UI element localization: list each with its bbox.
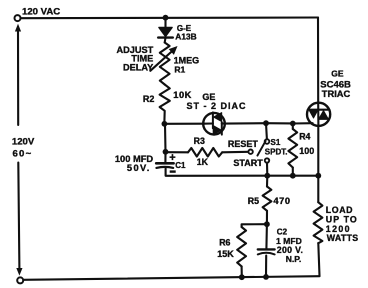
junction dot C1 top	[163, 149, 169, 155]
diac symbol top triangle	[214, 113, 222, 122]
svg-text:R5: R5	[248, 196, 259, 206]
svg-text:1K: 1K	[197, 157, 209, 167]
svg-text:GE: GE	[331, 68, 344, 78]
diode D1 A13B	[159, 27, 172, 36]
switch S1 START contact	[265, 158, 269, 162]
wire mid row right	[267, 175, 318, 177]
wire left lead lower	[18, 163, 19, 269]
svg-text:S1: S1	[271, 138, 281, 147]
triac Q1 circle	[307, 103, 330, 126]
svg-text:R2: R2	[143, 94, 155, 104]
resistor R4 100 zigzag	[288, 129, 297, 168]
capacitor C2 top plate	[258, 248, 275, 250]
wire triac gate	[293, 122, 313, 124]
wire C1 bottom L to row	[166, 169, 268, 176]
switch S1 pole contact	[265, 139, 270, 144]
wire diode anode lead	[164, 18, 166, 27]
svg-text:R6: R6	[219, 238, 230, 248]
capacitor C1 bottom plate	[156, 167, 173, 168]
wire right rail triac-to-load	[317, 126, 319, 202]
wire diode-to-R1	[164, 38, 167, 43]
triac Q1 right triangle	[319, 111, 327, 118]
wire left lead upper	[17, 28, 19, 125]
svg-text:SPDT.: SPDT.	[265, 148, 288, 157]
triac Q1 top bar	[309, 109, 327, 111]
svg-text:60~: 60~	[13, 148, 33, 159]
svg-text:R4: R4	[299, 131, 310, 141]
diac U2 circle	[203, 113, 225, 135]
wire right rail load-to-bottom	[318, 243, 319, 276]
svg-text:50V.: 50V.	[127, 163, 151, 173]
wire C2 top lead	[265, 224, 268, 249]
junction dot C2 bottom	[263, 274, 269, 280]
resistor R2 10K zigzag	[160, 85, 170, 122]
wire START-to-row	[266, 163, 268, 176]
svg-text:DELAY: DELAY	[123, 63, 153, 73]
svg-text:TRIAC: TRIAC	[322, 89, 351, 99]
svg-text:WATTS: WATTS	[327, 233, 359, 243]
arrow up at source	[15, 24, 21, 32]
terminal 120VAC bottom	[17, 277, 23, 283]
junction dot switch branch	[263, 120, 269, 126]
switch S1 pole lead	[265, 123, 268, 139]
triac Q1 main vertical	[317, 103, 319, 126]
potentiometer R1 wiper arrow	[150, 50, 173, 71]
triac Q1 left triangle	[309, 111, 317, 118]
svg-text:A13B: A13B	[175, 32, 196, 42]
junction dot R5 bottom	[264, 221, 270, 227]
junction dot R4 top / gate	[290, 121, 296, 127]
svg-text:C1: C1	[175, 161, 186, 170]
capacitor C1 top plate	[156, 162, 173, 165]
junction dot R2 bottom	[162, 121, 168, 127]
svg-text:120 VAC: 120 VAC	[22, 6, 60, 17]
triac Q1 bottom bar	[319, 118, 328, 120]
junction dot diode top	[163, 15, 169, 21]
wire diac internal stubs	[203, 122, 225, 124]
svg-text:LOAD: LOAD	[326, 205, 353, 215]
capacitor C2 bottom plate	[258, 253, 275, 255]
wire diac row left	[164, 123, 203, 125]
wire R6 top stub	[242, 224, 267, 227]
wire R3-to-RESET	[222, 151, 248, 154]
wire bottom rail	[23, 276, 319, 280]
svg-text:R3: R3	[194, 136, 205, 146]
potentiometer R1 1MEG zigzag	[160, 43, 170, 85]
svg-text:10K: 10K	[173, 90, 192, 100]
wire right rail upper	[317, 18, 319, 103]
svg-text:15K: 15K	[217, 249, 234, 259]
wire C1 lead	[164, 152, 166, 163]
junction dot R5 top	[264, 173, 270, 179]
wire R2-to-C1 vertical	[164, 124, 167, 152]
resistor R6 15K zigzag	[237, 227, 246, 266]
label C1 minus	[170, 170, 176, 172]
wire R3 left lead	[166, 151, 189, 153]
switch S1 RESET contact	[248, 150, 252, 154]
wire R5 top lead	[266, 176, 268, 187]
svg-text:R1: R1	[174, 64, 185, 74]
wire R5 bottom lead	[266, 211, 268, 224]
svg-text:START: START	[233, 158, 263, 168]
diac symbol bottom triangle	[213, 126, 221, 135]
svg-text:100: 100	[299, 146, 314, 156]
svg-text:ST - 2 DIAC: ST - 2 DIAC	[187, 101, 247, 111]
wire R6 bottom lead	[241, 266, 243, 277]
resistor R4 100 leads	[292, 124, 294, 130]
svg-text:470: 470	[273, 196, 290, 206]
switch S1 arm	[257, 141, 265, 156]
wire diac row right	[225, 122, 293, 125]
wire C2 bottom lead	[265, 256, 267, 277]
arrow down at source	[16, 268, 22, 276]
load resistor zigzag	[314, 202, 323, 243]
junction dot R6 bottom	[239, 274, 245, 280]
svg-text:120V: 120V	[12, 137, 35, 148]
diac symbol left bar	[212, 112, 214, 128]
svg-text:N.P.: N.P.	[286, 254, 302, 264]
svg-text:RESET: RESET	[228, 139, 259, 149]
diac symbol right bar	[221, 122, 223, 134]
resistor R5 470 zigzag	[263, 187, 272, 211]
terminal 120VAC top	[15, 15, 21, 21]
junction dot R4 bottom	[290, 173, 296, 179]
junction dot mid row right end	[315, 173, 321, 179]
wire top rail	[21, 16, 319, 19]
resistor R3 1K zigzag	[188, 148, 222, 157]
diode D1 cathode bar	[158, 36, 173, 38]
